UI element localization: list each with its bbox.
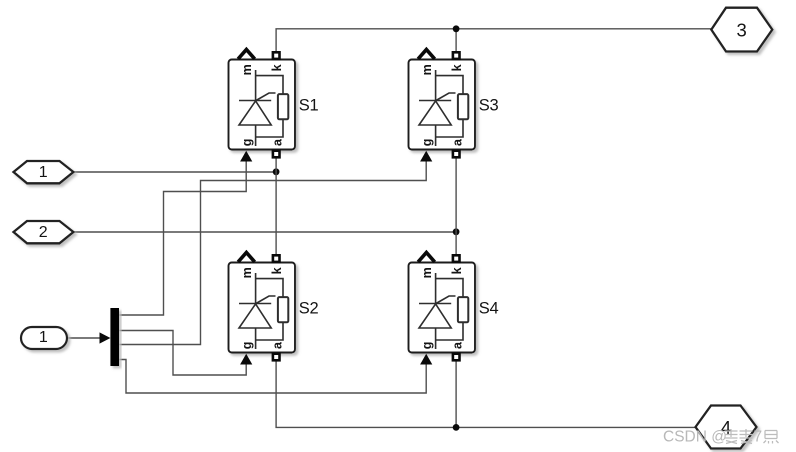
connection port hexagon 3: [711, 8, 772, 52]
S1 gate input arrowhead: [240, 151, 252, 162]
S3 cathode port k (square pad): [453, 52, 460, 59]
S4 measurement port m (chevron): [418, 253, 435, 262]
wire: demux out2 to S2 gate: [119, 331, 246, 376]
wire: S3 k up to top bus: [455, 29, 457, 53]
wire: hexagon 2 to S3a-S4k net: [73, 231, 456, 233]
junction hexagon2 / S3a vertical: [453, 228, 460, 235]
connection port hexagon 1 (gate bus a): [14, 161, 74, 183]
svg-text:m: m: [240, 267, 254, 278]
wire: hexagon 1 to S1a-S2k net: [73, 171, 276, 173]
svg-text:1: 1: [39, 164, 48, 181]
S3 gate input arrowhead: [420, 151, 432, 162]
wire: demux out3 to S3 gate: [119, 162, 426, 345]
junction bottom bus below S4: [453, 424, 460, 431]
svg-text:7: 7: [754, 429, 763, 446]
S3 internal gate lead: [436, 93, 456, 101]
wire: S1 a down to S2 k: [275, 157, 277, 256]
S2 internal snubber resistor: [278, 297, 288, 322]
S1 anode port a (square pad): [273, 151, 280, 158]
thyristor block S4 body: [409, 263, 476, 353]
junction on top bus above S3: [453, 25, 460, 32]
svg-text:S1: S1: [299, 96, 319, 114]
S1 internal cathode lead + bar: [239, 70, 271, 101]
S2 internal thyristor triangle: [239, 304, 271, 328]
svg-text:g: g: [420, 139, 434, 147]
wire: S3 a down to S4 k: [455, 157, 457, 256]
S1 measurement port m (chevron): [238, 50, 255, 59]
S4 cathode port k (square pad): [453, 255, 460, 262]
S2 internal cathode lead + bar: [239, 273, 271, 304]
S3 anode port a (square pad): [453, 151, 460, 158]
svg-text:a: a: [450, 341, 464, 349]
connection port hexagon 2: [14, 221, 74, 243]
svg-text:1: 1: [39, 329, 48, 346]
S4 internal snubber wiring: [436, 279, 463, 349]
S1 internal snubber resistor: [278, 94, 288, 119]
svg-text:m: m: [240, 64, 254, 75]
svg-text:g: g: [240, 139, 254, 147]
S1 internal thyristor triangle: [239, 101, 271, 125]
svg-text:S4: S4: [479, 299, 499, 317]
svg-text:k: k: [270, 64, 284, 71]
S2 internal snubber wiring: [256, 279, 283, 349]
svg-text:a: a: [270, 341, 284, 349]
svg-text:CSDN @: CSDN @: [663, 429, 727, 446]
svg-text:S3: S3: [479, 96, 499, 114]
svg-text:g: g: [420, 342, 434, 350]
watermark CSDN @...: [663, 429, 762, 446]
wire: inport 1 to demux with arrowhead: [67, 337, 100, 339]
S1 internal gate lead: [256, 93, 276, 101]
svg-text:S2: S2: [299, 299, 319, 317]
svg-text:k: k: [450, 267, 464, 274]
svg-text:2: 2: [39, 224, 48, 241]
S2 cathode port k (square pad): [273, 255, 280, 262]
S2 internal gate lead: [256, 296, 276, 304]
S4 gate input arrowhead: [420, 354, 432, 365]
S2 gate input arrowhead: [240, 354, 252, 365]
S1 internal snubber wiring: [256, 76, 283, 146]
S3 measurement port m (chevron): [418, 50, 435, 59]
wire: demux out4 to S4 gate: [119, 360, 426, 394]
S4 internal gate lead: [436, 296, 456, 304]
S2 measurement port m (chevron): [238, 253, 255, 262]
svg-text:m: m: [420, 267, 434, 278]
thyristor block S2 body: [229, 263, 296, 353]
svg-text:a: a: [450, 138, 464, 146]
svg-text:a: a: [270, 138, 284, 146]
inport block 1 (rounded): [21, 327, 67, 349]
S3 internal cathode lead + bar: [419, 70, 451, 101]
demux bar: [110, 308, 119, 366]
S4 internal thyristor triangle: [419, 304, 451, 328]
svg-text:k: k: [450, 64, 464, 71]
S4 internal cathode lead + bar: [419, 273, 451, 304]
wire: demux out1 to S1 gate: [119, 162, 246, 316]
svg-text:m: m: [420, 64, 434, 75]
S4 anode port a (square pad): [453, 354, 460, 361]
thyristor block S3 body: [409, 60, 476, 150]
wire: S2 a down along bottom bus to hexagon 4: [276, 360, 695, 427]
S2 anode port a (square pad): [273, 354, 280, 361]
S3 internal snubber resistor: [458, 94, 468, 119]
S1 cathode port k (square pad): [273, 52, 280, 59]
thyristor block S1 body: [229, 60, 296, 150]
junction hexagon1 / S1a vertical: [273, 168, 280, 175]
S3 internal thyristor triangle: [419, 101, 451, 125]
wire: S1 k up to top bus to hexagon 3: [276, 29, 711, 53]
connection port hexagon 4: [696, 406, 757, 449]
svg-text:k: k: [270, 267, 284, 274]
S4 internal snubber resistor: [458, 297, 468, 322]
S3 internal snubber wiring: [436, 76, 463, 146]
svg-text:g: g: [240, 342, 254, 350]
svg-text:3: 3: [736, 20, 746, 41]
wire: S4 a down to bottom bus: [455, 360, 457, 427]
